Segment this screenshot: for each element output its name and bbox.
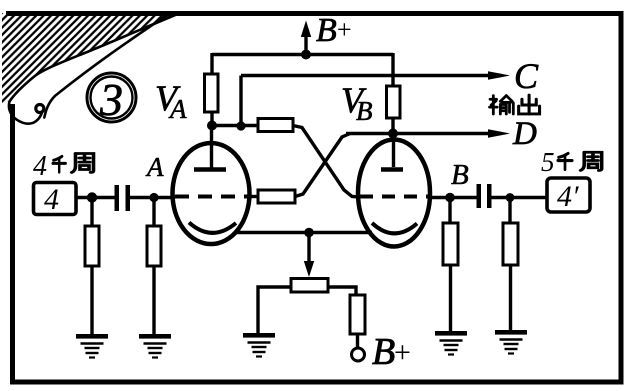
svg-text:4: 4 xyxy=(33,151,47,182)
ground G5 xyxy=(495,330,527,354)
wire right corner down xyxy=(391,53,394,87)
tube VB grid xyxy=(360,195,430,199)
top B+ label xyxy=(316,12,352,49)
arrow to wiper xyxy=(304,233,314,278)
ground G1 xyxy=(76,334,108,358)
resistor R8 xyxy=(503,223,518,265)
tube VA plate xyxy=(194,127,226,170)
svg-text:C: C xyxy=(514,56,539,96)
svg-text:3: 3 xyxy=(99,74,123,125)
tube VA cathode xyxy=(189,223,236,233)
tube VB envelope xyxy=(358,140,430,247)
wire cross diagonal up xyxy=(295,134,350,197)
arrow C xyxy=(488,71,510,80)
bottom B+ label xyxy=(372,331,411,373)
svg-text:A: A xyxy=(168,94,187,124)
resistor R4 coupling bottom xyxy=(258,190,295,203)
capacitor C1 xyxy=(115,185,131,211)
curl spiral xyxy=(36,105,44,113)
wire R7 to ground xyxy=(449,265,452,331)
wire left corner down xyxy=(210,53,213,75)
corner hatch decoration xyxy=(2,13,180,103)
wire input row left xyxy=(76,196,115,199)
tube VA envelope xyxy=(173,143,250,244)
wire pot right xyxy=(328,287,356,296)
svg-text:5: 5 xyxy=(541,147,555,177)
wire cross diagonal down xyxy=(293,126,360,198)
wire R1 to plate node xyxy=(210,112,213,127)
node 2 xyxy=(149,193,158,202)
label VA xyxy=(155,78,187,124)
node 1 xyxy=(87,192,97,202)
resistor R1 plate VA xyxy=(205,74,219,112)
svg-text:+: + xyxy=(337,15,352,44)
label 5千周 xyxy=(541,147,602,177)
wire top supply line xyxy=(212,53,393,56)
wire grid VA to R4 xyxy=(246,195,258,198)
node B xyxy=(445,193,455,203)
wire cap to tube xyxy=(130,196,175,199)
svg-text:4: 4 xyxy=(44,183,59,216)
tube VB plate xyxy=(381,134,403,170)
label 4千周 xyxy=(33,151,94,182)
wire R8 to ground xyxy=(509,265,512,330)
resistor R3 coupling top xyxy=(258,119,293,132)
wire R9 to terminal xyxy=(356,334,359,348)
svg-text:4′: 4′ xyxy=(557,180,579,213)
wire output D line xyxy=(346,132,501,135)
node C branch xyxy=(236,121,245,130)
svg-text:A: A xyxy=(145,152,164,182)
wire cap to box xyxy=(491,196,547,199)
wire R6 to ground xyxy=(152,266,155,334)
potentiometer xyxy=(291,279,328,293)
node B+ xyxy=(301,50,311,60)
tube VA grid xyxy=(175,195,248,199)
ground G2 xyxy=(139,334,171,358)
capacitor C2 xyxy=(477,184,492,208)
wire pot left xyxy=(258,287,291,334)
wire node2 down xyxy=(152,198,155,228)
svg-text:B: B xyxy=(356,96,373,126)
node VB plate xyxy=(388,129,398,139)
terminal circle xyxy=(352,348,365,361)
resistor R7 xyxy=(443,223,458,265)
arrow D xyxy=(488,129,510,138)
svg-text:B: B xyxy=(316,12,337,49)
ground G4 xyxy=(435,331,467,355)
resistor R2 plate VB xyxy=(387,86,401,118)
output box 4' xyxy=(547,178,590,213)
svg-text:B: B xyxy=(451,159,469,191)
svg-text:B: B xyxy=(372,331,395,373)
node VA plate xyxy=(207,121,217,131)
wire plate node link xyxy=(212,124,258,127)
svg-text:+: + xyxy=(394,336,411,369)
B+ arrow xyxy=(301,21,311,55)
corner curl ribbon xyxy=(9,13,180,124)
wire R5 to ground xyxy=(90,266,93,334)
resistor R5 xyxy=(85,226,99,266)
ground G3 xyxy=(243,333,275,357)
wire R2 to plate node xyxy=(391,118,394,135)
wire cathode bus xyxy=(234,231,372,234)
resistor R6 xyxy=(147,226,161,266)
tube VB cathode xyxy=(372,223,417,233)
node 3 xyxy=(506,193,515,202)
wire C branch vertical xyxy=(239,76,242,128)
label VB xyxy=(341,80,373,126)
wire node1 down xyxy=(90,198,93,228)
wire node B down xyxy=(448,198,451,225)
svg-text:D: D xyxy=(512,116,537,152)
node cathode xyxy=(304,228,314,238)
curl lower edge xyxy=(44,13,170,118)
figure number circle 3 xyxy=(87,73,136,125)
resistor R9 xyxy=(350,295,365,334)
label 输出 xyxy=(490,95,540,114)
wire node3 down xyxy=(508,198,511,225)
wire output C line xyxy=(241,74,501,77)
wire grid VB to node B xyxy=(430,196,477,199)
input box 4 xyxy=(34,183,77,217)
